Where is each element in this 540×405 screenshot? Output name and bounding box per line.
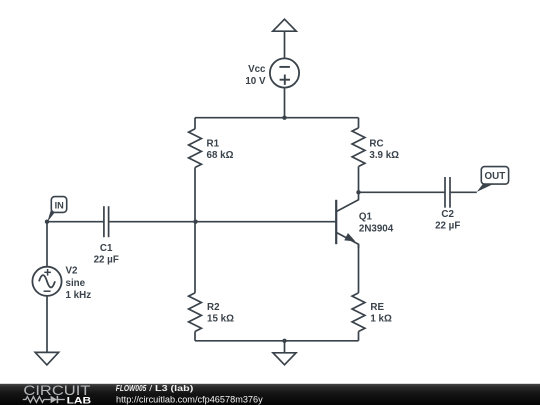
svg-text:IN: IN <box>55 201 65 211</box>
svg-text:2N3904: 2N3904 <box>359 223 394 234</box>
resistor R1 <box>189 129 234 168</box>
flag IN <box>47 197 66 222</box>
svg-text:LAB: LAB <box>67 396 92 405</box>
svg-text:C2: C2 <box>441 209 454 220</box>
svg-text:Q1: Q1 <box>359 212 373 223</box>
node IN junction <box>45 220 49 224</box>
wire base <box>47 221 104 223</box>
node junction bottom rail <box>282 339 286 343</box>
svg-text:1 kHz: 1 kHz <box>66 290 92 301</box>
wire <box>358 332 360 341</box>
voltage source Vcc <box>245 58 299 87</box>
svg-text:68 kΩ: 68 kΩ <box>207 150 234 161</box>
wire emitter <box>358 244 360 293</box>
wire collector to C2 <box>359 191 446 193</box>
resistor RC <box>352 128 399 167</box>
power flag VCC (up arrow) <box>273 19 296 31</box>
resistor R2 <box>189 293 234 332</box>
wire <box>358 118 360 128</box>
svg-text:FLOW005 / L3 (lab): FLOW005 / L3 (lab) <box>116 383 194 393</box>
svg-text:R1: R1 <box>207 138 220 149</box>
svg-text:10 V: 10 V <box>245 76 266 87</box>
svg-text:3.9 kΩ: 3.9 kΩ <box>369 150 399 161</box>
node junction collector <box>356 190 360 194</box>
resistor RE <box>352 293 392 332</box>
wire <box>284 88 286 118</box>
node junction top rail <box>282 116 286 120</box>
node junction base <box>193 220 197 224</box>
wire <box>46 296 48 353</box>
svg-text:sine: sine <box>66 278 86 289</box>
wire <box>450 191 477 193</box>
ground <box>273 353 296 365</box>
svg-text:R2: R2 <box>207 302 220 313</box>
svg-text:OUT: OUT <box>485 171 506 182</box>
wire top rail <box>195 117 359 119</box>
logo CircuitLab <box>23 383 92 405</box>
svg-text:http://circuitlab.com/cfp46578: http://circuitlab.com/cfp46578m376y <box>116 394 263 404</box>
wire <box>194 118 196 129</box>
capacitor C1 <box>94 206 119 266</box>
svg-text:Vcc: Vcc <box>248 64 266 75</box>
svg-text:15 kΩ: 15 kΩ <box>207 313 234 324</box>
voltage source V2 <box>32 266 91 301</box>
svg-text:22 µF: 22 µF <box>435 220 460 231</box>
wire <box>194 332 196 341</box>
wire ground stem <box>284 341 286 353</box>
svg-text:C1: C1 <box>100 243 113 254</box>
transistor Q1 <box>336 192 394 248</box>
wire <box>194 222 196 293</box>
wire <box>284 31 286 58</box>
flag OUT <box>477 167 509 192</box>
svg-text:RC: RC <box>369 138 383 149</box>
wire bottom rail <box>195 340 359 342</box>
capacitor C2 <box>435 177 460 231</box>
svg-text:RE: RE <box>370 302 384 313</box>
ground <box>35 352 58 365</box>
svg-text:1 kΩ: 1 kΩ <box>370 313 392 324</box>
svg-text:22 µF: 22 µF <box>94 255 119 266</box>
wire <box>358 167 360 193</box>
svg-text:V2: V2 <box>66 266 79 277</box>
wire <box>46 222 48 267</box>
wire <box>194 168 196 222</box>
wire <box>109 221 337 223</box>
